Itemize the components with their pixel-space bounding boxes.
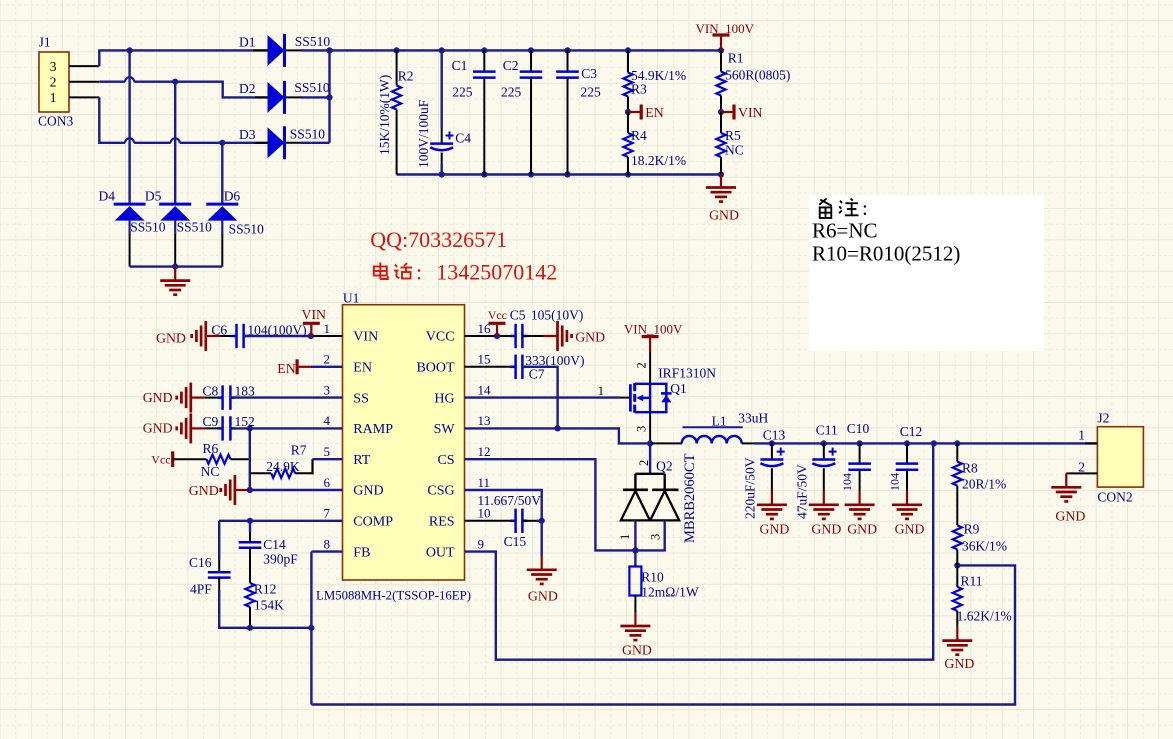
svg-text:1: 1 (50, 90, 57, 105)
svg-text:1.62K/1%: 1.62K/1% (957, 609, 1012, 624)
svg-text:EN: EN (353, 361, 372, 376)
svg-text:RAMP: RAMP (353, 422, 393, 437)
svg-text:225: 225 (501, 85, 522, 100)
svg-text:SS510: SS510 (130, 220, 166, 235)
svg-text:13: 13 (478, 413, 491, 428)
svg-text:D6: D6 (224, 189, 241, 204)
svg-text:HG: HG (434, 391, 454, 406)
svg-text:C4: C4 (455, 131, 471, 146)
svg-text:GND: GND (811, 522, 841, 537)
svg-text:NC: NC (725, 143, 744, 158)
svg-text:CON2: CON2 (1097, 490, 1132, 505)
svg-text:4PF: 4PF (190, 582, 212, 597)
svg-text:3: 3 (324, 382, 331, 397)
svg-text:105(10V): 105(10V) (531, 308, 584, 323)
svg-text:EN: EN (645, 105, 663, 120)
svg-text:3: 3 (50, 59, 57, 74)
svg-text:225: 225 (581, 85, 602, 100)
svg-text:12mΩ/1W: 12mΩ/1W (641, 585, 699, 600)
svg-text:36K/1%: 36K/1% (962, 539, 1007, 554)
svg-text:SS: SS (353, 391, 369, 406)
svg-text:154K: 154K (254, 598, 284, 613)
svg-text:3: 3 (649, 534, 663, 540)
svg-text:1: 1 (598, 384, 604, 398)
svg-text:11: 11 (478, 475, 491, 490)
svg-text:R9: R9 (964, 522, 980, 537)
svg-text:1: 1 (324, 321, 331, 336)
svg-text::: : (862, 196, 868, 220)
svg-text:R5: R5 (725, 128, 741, 143)
svg-text:VIN: VIN (353, 330, 378, 345)
svg-text:VIN: VIN (738, 105, 763, 120)
svg-text:11.667/50V: 11.667/50V (477, 493, 541, 508)
svg-text:Q2: Q2 (656, 458, 673, 473)
svg-text:GND: GND (944, 656, 974, 671)
svg-text:D3: D3 (239, 127, 256, 142)
svg-text:2: 2 (324, 352, 331, 367)
svg-text:2: 2 (50, 75, 57, 90)
svg-text:20R/1%: 20R/1% (962, 477, 1006, 492)
svg-text:47uF/50V: 47uF/50V (794, 464, 809, 519)
svg-text:152: 152 (235, 414, 255, 429)
svg-text:18.2K/1%: 18.2K/1% (631, 153, 686, 168)
svg-text:J2: J2 (1097, 411, 1109, 426)
svg-text:220uF/50V: 220uF/50V (742, 457, 757, 519)
svg-text:VIN_100V: VIN_100V (624, 322, 683, 337)
svg-text:C13: C13 (763, 428, 786, 443)
svg-text:BOOT: BOOT (416, 361, 455, 376)
svg-text:2: 2 (637, 460, 651, 466)
svg-text:C15: C15 (504, 534, 527, 549)
svg-text:CS: CS (437, 453, 454, 468)
svg-text:QQ:703326571: QQ:703326571 (370, 227, 507, 252)
svg-text:FB: FB (353, 545, 370, 560)
svg-text:D4: D4 (99, 189, 116, 204)
svg-text:R7: R7 (291, 443, 307, 458)
svg-text:7: 7 (324, 506, 331, 521)
svg-text:GND: GND (895, 522, 925, 537)
svg-text:R12: R12 (254, 582, 277, 597)
svg-text:3: 3 (635, 426, 649, 432)
svg-text:SS510: SS510 (290, 127, 326, 142)
svg-text:R10: R10 (641, 570, 664, 585)
svg-text:15: 15 (478, 352, 491, 367)
svg-text:104: 104 (840, 473, 854, 491)
svg-text:GND: GND (1055, 509, 1085, 524)
svg-text:6: 6 (324, 475, 331, 490)
svg-text:104: 104 (887, 473, 901, 491)
svg-text:D5: D5 (145, 189, 162, 204)
svg-text:C8: C8 (203, 383, 219, 398)
svg-text:L1: L1 (712, 413, 727, 428)
svg-text:Vcc: Vcc (151, 453, 170, 467)
svg-text:GND: GND (143, 421, 173, 436)
svg-text:R2: R2 (398, 69, 414, 84)
svg-text:1: 1 (1078, 428, 1085, 443)
svg-text:100V/100uF: 100V/100uF (416, 99, 431, 168)
svg-text:NC: NC (201, 464, 220, 479)
svg-text:183: 183 (235, 383, 256, 398)
svg-text:VCC: VCC (426, 330, 455, 345)
svg-text:R10=R010(2512): R10=R010(2512) (812, 242, 960, 266)
svg-text:2: 2 (1078, 460, 1085, 475)
svg-text:GND: GND (189, 483, 219, 498)
svg-text:EN: EN (277, 361, 295, 376)
svg-text:COMP: COMP (353, 515, 393, 530)
svg-text:GND: GND (575, 330, 605, 345)
svg-text:GND: GND (353, 484, 383, 499)
svg-text:13425070142: 13425070142 (436, 260, 557, 285)
svg-text:C7: C7 (529, 367, 545, 382)
svg-text:R8: R8 (962, 461, 978, 476)
svg-text:33uH: 33uH (738, 410, 768, 425)
svg-text:GND: GND (622, 643, 652, 658)
svg-text:4: 4 (324, 413, 331, 428)
svg-text:RT: RT (353, 453, 370, 468)
svg-text:RES: RES (429, 515, 455, 530)
svg-text:IRF1310N: IRF1310N (658, 366, 716, 381)
svg-text:D1: D1 (239, 35, 256, 50)
svg-text:LM5088MH-2(TSSOP-16EP): LM5088MH-2(TSSOP-16EP) (316, 589, 471, 603)
svg-text:C11: C11 (816, 423, 838, 438)
svg-text:R11: R11 (961, 574, 983, 589)
svg-text:24.9K: 24.9K (266, 459, 300, 474)
svg-text:8: 8 (324, 536, 331, 551)
svg-text:C16: C16 (189, 555, 212, 570)
svg-text:C6: C6 (211, 323, 227, 338)
svg-text:R1: R1 (728, 51, 744, 66)
svg-text:R3: R3 (631, 81, 647, 96)
svg-text:GND: GND (156, 331, 186, 346)
svg-text:GND: GND (847, 522, 877, 537)
svg-text:14: 14 (478, 382, 492, 397)
svg-text:12: 12 (478, 444, 491, 459)
svg-text:Q1: Q1 (670, 381, 687, 396)
svg-text:C3: C3 (581, 66, 597, 81)
svg-text:GND: GND (760, 522, 790, 537)
svg-text:D2: D2 (239, 81, 256, 96)
svg-text:104(100V): 104(100V) (247, 323, 306, 338)
svg-text:SW: SW (434, 422, 456, 437)
svg-text:C1: C1 (452, 58, 468, 73)
svg-text::: : (416, 260, 422, 285)
svg-text:GND: GND (143, 390, 173, 405)
svg-text:C9: C9 (203, 414, 219, 429)
svg-text:560R(0805): 560R(0805) (725, 68, 790, 83)
svg-text:R4: R4 (631, 128, 647, 143)
svg-text:SS510: SS510 (295, 34, 331, 49)
svg-text:1: 1 (618, 534, 632, 540)
svg-text:R6: R6 (203, 441, 219, 456)
svg-text:VIN: VIN (302, 307, 327, 322)
svg-text:9: 9 (478, 536, 485, 551)
svg-text:225: 225 (452, 85, 473, 100)
svg-text:CON3: CON3 (38, 114, 74, 129)
svg-text:R6=NC: R6=NC (812, 219, 878, 243)
svg-text:C14: C14 (263, 537, 286, 552)
svg-text:GND: GND (709, 208, 739, 223)
svg-text:GND: GND (528, 589, 558, 604)
svg-text:5: 5 (324, 444, 331, 459)
svg-text:15K/10%(1W): 15K/10%(1W) (377, 75, 392, 155)
svg-text:SS510: SS510 (177, 220, 213, 235)
svg-text:390pF: 390pF (263, 552, 298, 567)
svg-text:J1: J1 (39, 35, 51, 50)
svg-text:U1: U1 (343, 291, 360, 306)
svg-text:VIN_100V: VIN_100V (696, 21, 755, 36)
svg-text:C2: C2 (503, 58, 519, 73)
svg-text:C12: C12 (900, 424, 923, 439)
svg-text:C10: C10 (847, 421, 870, 436)
svg-text:CSG: CSG (427, 484, 454, 499)
svg-text:10: 10 (478, 506, 491, 521)
svg-text:Vcc: Vcc (488, 308, 507, 322)
svg-text:C5: C5 (510, 308, 526, 323)
svg-text:MBRB2060CT: MBRB2060CT (682, 453, 698, 543)
svg-text:SS510: SS510 (294, 80, 330, 95)
svg-text:OUT: OUT (426, 545, 455, 560)
svg-text:SS510: SS510 (229, 222, 265, 237)
svg-text:2: 2 (635, 362, 649, 368)
